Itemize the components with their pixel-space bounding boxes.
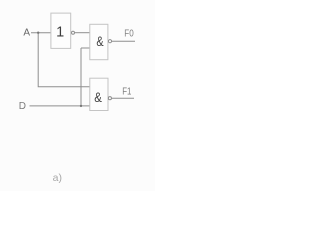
- svg-text:&: &: [94, 89, 102, 105]
- svg-text:A: A: [23, 28, 30, 39]
- svg-text:D: D: [19, 101, 26, 112]
- svg-text:&: &: [96, 33, 104, 49]
- svg-text:F1: F1: [122, 87, 131, 98]
- svg-text:F0: F0: [124, 28, 134, 39]
- svg-text:a): a): [53, 172, 62, 184]
- svg-text:1: 1: [56, 25, 64, 41]
